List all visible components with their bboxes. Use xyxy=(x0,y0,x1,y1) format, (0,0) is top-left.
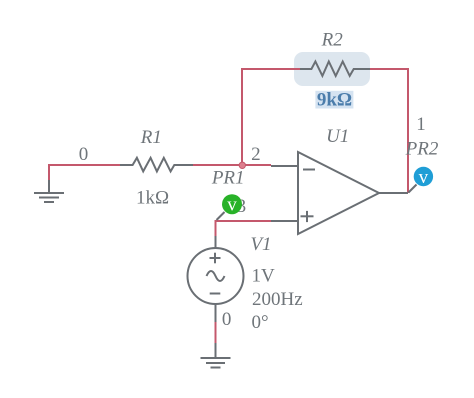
wire node 2 up to R2 xyxy=(242,69,300,165)
op-amp U1 plus symbol xyxy=(301,215,314,217)
wire R1 to op-amp minus / node 2 xyxy=(193,164,271,166)
svg-text:PR1: PR1 xyxy=(211,168,245,189)
probe PR2 pointer xyxy=(409,185,417,193)
source V1 bottom lead xyxy=(215,304,217,322)
probe PR1 xyxy=(222,194,242,214)
svg-text:2: 2 xyxy=(251,144,261,165)
svg-text:1kΩ: 1kΩ xyxy=(136,188,169,209)
source V1 sine symbol xyxy=(207,271,225,281)
op-amp U1 xyxy=(271,152,408,234)
source V1 top lead xyxy=(215,236,217,248)
svg-text:0: 0 xyxy=(79,144,89,165)
source V1 minus symbol xyxy=(210,293,221,295)
wire V1 bottom to ground xyxy=(215,322,217,343)
resistor R1 xyxy=(120,158,193,172)
op-amp U1 triangle body xyxy=(298,152,379,234)
op-amp U1 minus symbol xyxy=(303,169,315,171)
ground (left, node 0) xyxy=(34,180,64,202)
svg-text:200Hz: 200Hz xyxy=(252,289,303,310)
svg-text:PR2: PR2 xyxy=(405,138,439,159)
wire ground to R1 xyxy=(49,165,120,181)
op-amp U1 output pin xyxy=(379,192,408,194)
wire V1 to op-amp plus xyxy=(216,221,272,236)
svg-text:v: v xyxy=(227,195,237,216)
source V1 circle body xyxy=(188,248,244,304)
node 2 junction dot xyxy=(239,162,245,168)
svg-text:1V: 1V xyxy=(252,265,276,286)
op-amp U1 non-inverting input pin xyxy=(271,220,298,222)
svg-text:V1: V1 xyxy=(250,234,271,255)
svg-text:R1: R1 xyxy=(140,127,162,148)
svg-text:U1: U1 xyxy=(326,126,349,147)
svg-text:1: 1 xyxy=(416,114,426,135)
op-amp U1 inverting input pin xyxy=(271,165,298,167)
svg-text:R2: R2 xyxy=(321,29,344,50)
highlight box around R2 xyxy=(294,52,370,86)
probe PR1 pointer xyxy=(217,212,225,220)
value 9kΩ highlighted xyxy=(315,91,353,109)
svg-text:0: 0 xyxy=(222,309,232,330)
svg-text:v: v xyxy=(419,167,429,188)
source V1 xyxy=(188,236,244,322)
svg-text:0°: 0° xyxy=(252,312,269,333)
wire R2 to op-amp output xyxy=(370,69,408,193)
ground (bottom, node 0) xyxy=(201,343,231,368)
probe PR2 xyxy=(414,167,433,186)
source V1 plus symbol xyxy=(210,257,221,259)
svg-text:9kΩ: 9kΩ xyxy=(317,90,352,111)
resistor R2 xyxy=(300,62,370,76)
